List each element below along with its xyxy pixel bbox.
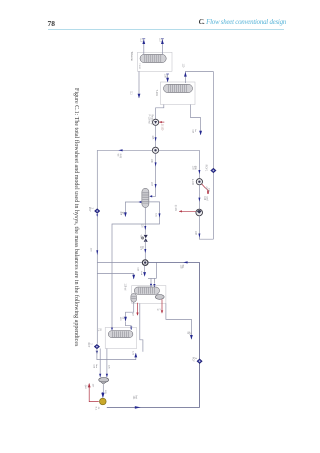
svg-text:107: 107 xyxy=(150,182,152,187)
svg-text:RCY: RCY xyxy=(87,342,89,347)
reflux drum ellipse of T-102 xyxy=(155,295,164,300)
svg-text:104: 104 xyxy=(203,196,205,201)
stream 126 arrow xyxy=(101,393,104,399)
stream 104 wire xyxy=(198,185,200,209)
purge arrow xyxy=(124,212,127,217)
page number xyxy=(48,19,56,28)
stream 114 line (T-101 bottoms) xyxy=(191,105,201,135)
recycle RCY-1 block xyxy=(211,168,217,173)
stream 108 wire xyxy=(199,216,213,239)
stream 113 arrow xyxy=(161,39,164,44)
svg-text:gas: gas xyxy=(194,166,196,171)
recycle RCY-2 block xyxy=(94,209,100,214)
feed arrow b into T-102 xyxy=(153,284,155,288)
wire T-101 bottom to pump P-100 xyxy=(156,105,164,120)
svg-text:Q10: Q10 xyxy=(84,385,86,390)
svg-text:114: 114 xyxy=(192,129,194,133)
svg-text:108: 108 xyxy=(194,231,196,236)
svg-text:E-100: E-100 xyxy=(191,179,193,186)
toluene side wire from T-102 xyxy=(140,304,143,352)
column T-100 tower xyxy=(140,54,166,62)
energy qreb arrow xyxy=(136,313,138,316)
stream 117 wire xyxy=(144,240,146,259)
column T-103 sub-flowsheet boundary xyxy=(105,328,136,349)
energy QC-100 arrow xyxy=(207,190,209,194)
svg-text:cool: cool xyxy=(205,196,207,201)
stream 124 arrow xyxy=(99,374,101,378)
mixer MIX-101 xyxy=(152,147,158,153)
svg-text:103: 103 xyxy=(192,166,194,171)
svg-text:102: 102 xyxy=(179,265,181,270)
stream 116 wire (V-100 bottoms) xyxy=(144,208,146,235)
stream 106 arrow xyxy=(155,162,157,166)
chapter header xyxy=(0,19,286,26)
stream 115 arrow into T-103 xyxy=(111,327,113,330)
svg-text:VLV: VLV xyxy=(140,235,142,240)
energy stream Q-100 wire xyxy=(159,121,164,123)
stream 113 line (overhead 2) xyxy=(161,39,163,54)
column T-100 sub-flowsheet boundary xyxy=(138,52,173,71)
feed connector wires into T-102 xyxy=(155,262,157,278)
wire recycle into MIX-101 from left xyxy=(97,149,152,151)
stream 110 arrow xyxy=(184,72,187,77)
arrow below RCY-3 xyxy=(96,351,98,355)
column T-101 tower xyxy=(164,84,193,92)
stream 111 line (T-100 bottoms) xyxy=(138,71,140,98)
stream 104 arrow xyxy=(198,198,200,202)
arrow on bottom recycle wire xyxy=(135,406,141,409)
wire MIX-101 to E-100 chain xyxy=(159,149,200,151)
svg-text:feed: feed xyxy=(140,271,142,276)
recycle RCY-4 block xyxy=(197,359,203,364)
stream 114 arrow xyxy=(199,131,202,136)
feed arrow into T-103 xyxy=(130,327,132,331)
svg-text:qr2: qr2 xyxy=(132,313,135,317)
left recycle wire xyxy=(96,150,98,343)
tank TK-100 xyxy=(99,378,109,385)
wire branch to column T-102 feed xyxy=(97,274,133,279)
column T-102 tower xyxy=(134,287,159,294)
return arrow into T-103 xyxy=(134,353,137,358)
compressor K-100 xyxy=(196,209,203,216)
svg-text:qc: qc xyxy=(156,309,158,312)
stream 121 arrow benzene xyxy=(190,335,193,340)
wire branch to MIX-100 xyxy=(97,262,142,264)
stream purge wire from V-100 left xyxy=(125,202,141,217)
svg-text:111: 111 xyxy=(129,91,131,95)
svg-text:Q-101: Q-101 xyxy=(174,205,176,212)
stream 110 line (T-101 overhead to recycle) xyxy=(185,72,213,84)
svg-text:120: 120 xyxy=(119,317,121,321)
energy Q-101 wire xyxy=(179,210,196,212)
recycle wire right side down xyxy=(212,72,214,240)
energy QC-100 wire xyxy=(202,184,206,188)
arrow on left recycle wire xyxy=(96,250,98,255)
stream 116 arrow xyxy=(144,226,146,230)
wire recycle return to T-103 xyxy=(97,349,136,360)
stream 119 arrow below MIX-100 xyxy=(144,266,146,272)
stream 106 wire down to separator xyxy=(150,153,156,196)
stream 111 arrow xyxy=(138,94,141,99)
svg-text:115: 115 xyxy=(155,213,157,217)
tick below RCY-2 xyxy=(96,214,98,216)
svg-text:119: 119 xyxy=(137,267,139,271)
svg-text:bz: bz xyxy=(194,129,196,131)
wire MIX-101 to cooler E-100 xyxy=(198,150,200,178)
svg-text:btm: btm xyxy=(95,364,98,368)
figure caption (rotated) xyxy=(73,88,79,398)
svg-text:recy: recy xyxy=(119,154,122,159)
mixer MIX-100 xyxy=(142,260,148,266)
stream 109 feed line xyxy=(167,74,169,82)
svg-text:126: 126 xyxy=(104,390,106,394)
feed arrow to T-102 xyxy=(132,275,135,280)
svg-text:Q-100: Q-100 xyxy=(161,124,163,131)
svg-text:Recycle p: Recycle p xyxy=(150,114,152,125)
stream 112 line (overhead 1) xyxy=(143,39,145,54)
svg-text:127: 127 xyxy=(92,384,94,388)
svg-text:RCY: RCY xyxy=(191,357,193,362)
arrow on purge wire xyxy=(139,201,142,203)
svg-text:T-100: T-100 xyxy=(138,63,140,69)
svg-text:124: 124 xyxy=(93,364,95,368)
valve VLV-100 xyxy=(141,235,147,242)
stream 120 wire (T-102 bottoms) xyxy=(126,302,134,321)
stream 120 arrow xyxy=(124,317,127,322)
recycle arrow on left wire xyxy=(118,149,122,151)
arrow into separator V-100 xyxy=(149,195,152,197)
svg-text:RCY: RCY xyxy=(88,207,90,212)
svg-text:125: 125 xyxy=(107,365,109,369)
stream 108 arrow xyxy=(198,234,200,238)
svg-text:110: 110 xyxy=(182,64,184,68)
svg-text:T-101: T-101 xyxy=(155,90,158,97)
svg-text:Bz: Bz xyxy=(186,332,188,336)
svg-text:109: 109 xyxy=(164,74,166,79)
svg-text:116: 116 xyxy=(141,224,143,228)
stream 117 arrow xyxy=(144,249,146,253)
svg-text:106: 106 xyxy=(150,159,152,164)
energy qreb wire xyxy=(137,303,139,315)
recycle wire right vertical xyxy=(107,262,200,407)
recycle RCY-3 block xyxy=(94,344,100,349)
svg-text:105: 105 xyxy=(151,135,153,140)
header rule xyxy=(48,29,284,30)
wire MIX-100 recycle from right xyxy=(148,261,199,263)
stream 121 wire (benzene product) xyxy=(166,303,192,339)
svg-text:112: 112 xyxy=(140,38,142,42)
energy Q-101 arrow xyxy=(179,210,182,212)
svg-text:117: 117 xyxy=(139,246,141,250)
separator V-100 xyxy=(142,188,149,207)
cooler E-100 xyxy=(196,179,202,185)
svg-text:Toluene: Toluene xyxy=(130,51,134,61)
column T-101 sub-flowsheet boundary xyxy=(161,82,196,105)
stream 105 arrow xyxy=(155,137,157,141)
stream 115 arrow mid xyxy=(159,213,161,217)
svg-text:100: 100 xyxy=(89,248,91,252)
stream 112 arrow xyxy=(142,39,145,44)
svg-text:E-1: E-1 xyxy=(95,407,97,411)
column T-102 sub-flowsheet boundary xyxy=(132,286,166,304)
wire 120 into T-103 xyxy=(126,321,132,329)
stream 125 wire (T-103 bottoms b) xyxy=(106,349,108,378)
feed arrow a into T-102 xyxy=(150,284,152,288)
svg-text:123: 123 xyxy=(131,351,133,355)
energy qcond wire xyxy=(161,299,163,312)
heater E-101 (fired) xyxy=(100,398,107,405)
energy Q-102 wire xyxy=(89,384,99,402)
column T-103 tower xyxy=(108,331,133,338)
stream 115 wire separator to T-103 xyxy=(112,202,160,329)
svg-text:hot: hot xyxy=(134,396,137,400)
stream 103 arrow xyxy=(198,170,200,174)
svg-text:118 tol: 118 tol xyxy=(124,284,127,291)
stream 124 wire (T-103 bottoms a) xyxy=(99,349,101,378)
stream 125 arrow xyxy=(106,374,108,378)
energy Q-102 arrow xyxy=(88,383,91,388)
svg-text:101: 101 xyxy=(132,396,134,401)
energy qcond arrow xyxy=(161,310,163,313)
energy Q-100 arrow xyxy=(159,121,162,123)
svg-text:P-100 tol: P-100 tol xyxy=(148,114,151,124)
svg-text:113: 113 xyxy=(158,38,160,42)
stream 107 arrow xyxy=(155,184,157,188)
stream 109 arrow xyxy=(166,78,169,83)
pump P-100 xyxy=(153,119,159,125)
stream 126 wire xyxy=(102,385,104,393)
arrow toward MIX-100 xyxy=(183,261,187,263)
svg-text:RCY-1: RCY-1 xyxy=(205,165,207,172)
condenser drum of T-102 xyxy=(131,294,137,303)
svg-text:QC: QC xyxy=(205,187,207,191)
stream 105 wire xyxy=(155,125,157,147)
